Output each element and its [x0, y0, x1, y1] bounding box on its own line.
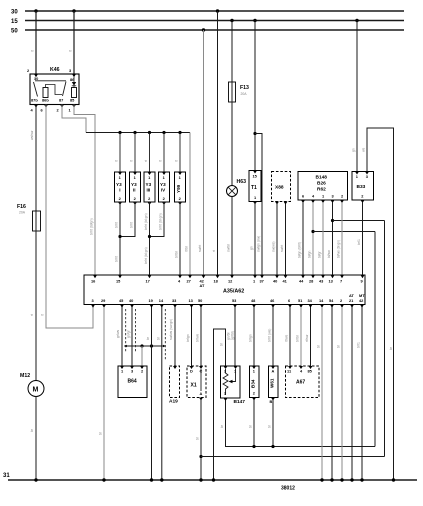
node: junction pin14b wire / bus31 — [320, 478, 323, 481]
motor M12 — [20, 373, 44, 397]
K46 switch contact 87 — [63, 82, 67, 97]
svg-text:30: 30 — [11, 10, 18, 16]
wire X1 pin A to bus31 — [200, 400, 202, 480]
svg-text:rt: rt — [130, 160, 134, 162]
ECU bottom pin 2 — [340, 298, 344, 308]
potentiometer B547 — [221, 366, 241, 401]
ECU bottom pin 33 — [172, 298, 177, 308]
wire ECU pin51 to A67 pin4 — [300, 307, 302, 366]
node: junction pin19 wire / bus31 — [150, 478, 153, 481]
ECU bottom pin 34 — [308, 298, 313, 308]
ECU bottom pin 3 — [91, 298, 95, 308]
node: feed rail junction Y99 — [178, 131, 181, 134]
ECU bottom pin 53 — [232, 298, 237, 308]
svg-text:sw/ws (sw gn): sw/ws (sw gn) — [169, 319, 173, 340]
ECU top pin 13 — [329, 275, 335, 284]
svg-text:20A: 20A — [241, 92, 248, 96]
svg-text:T1: T1 — [251, 185, 257, 191]
svg-text:(gr/bl): (gr/bl) — [231, 331, 235, 340]
node: feed rail junction Y3-IV — [162, 131, 165, 134]
wire ECU pin14b to bus31 — [321, 307, 323, 480]
ECU top pin 27 — [187, 275, 193, 284]
svg-text:ws: ws — [362, 148, 366, 152]
wire F13 to lamp H63 — [231, 102, 233, 186]
ECU top pin 41 — [283, 275, 288, 284]
pressure sensor B64 — [118, 366, 147, 398]
svg-text:sw/rt: sw/rt — [280, 245, 284, 252]
svg-text:F16: F16 — [17, 204, 26, 210]
wire B34 pin2 to ground rail — [253, 400, 255, 447]
lamp H63 — [227, 179, 247, 197]
svg-text:rt: rt — [212, 250, 216, 252]
ECU bottom pin MT 42 — [359, 293, 365, 308]
svg-text:86b: 86b — [42, 98, 49, 103]
svg-text:AT: AT — [200, 283, 206, 288]
wire B148 pin1 to ECU pin43 — [322, 203, 324, 276]
solenoid valve Y3-II — [130, 172, 141, 205]
node: junction AT21 wire / bus31 — [350, 478, 353, 481]
ECU top pin 40 — [273, 275, 279, 284]
wire B148 pin4 to ECU pin28 — [312, 203, 314, 276]
ECU bottom pin 29 — [101, 298, 106, 308]
wire B148 pin3 branch right — [333, 220, 385, 222]
svg-text:bl/gr: bl/gr — [318, 251, 322, 258]
svg-text:rt/ws: rt/ws — [285, 335, 289, 342]
svg-text:br/rt: br/rt — [115, 222, 119, 228]
svg-text:I: I — [119, 188, 120, 193]
svg-text:R62: R62 — [317, 187, 326, 193]
node: feed rail junction Y3-II — [133, 131, 136, 134]
wire Y3-IV joining Y3-III — [150, 202, 165, 237]
wire Y3-II joining Y3-I — [120, 202, 135, 237]
ECU top pin 42 AT — [200, 275, 206, 288]
ECU top pin 9 — [361, 275, 365, 284]
svg-text:87b: 87b — [31, 98, 38, 103]
node: junction pin54 wire / bus31 — [330, 478, 333, 481]
wire ECU pin50 to X1 pin C — [200, 307, 202, 366]
svg-text:40: 40 — [129, 298, 133, 303]
ECU top pin 4 — [178, 275, 182, 284]
svg-text:bl/ws (bl gn): bl/ws (bl gn) — [337, 240, 341, 258]
wire B148 pin3 to ECU pin13 — [332, 203, 334, 276]
svg-text:rt: rt — [175, 160, 179, 162]
svg-text:15: 15 — [11, 19, 18, 25]
node: junction Y3-III/Y3-IV wires — [148, 235, 151, 238]
svg-text:A35/A62: A35/A62 — [223, 289, 244, 295]
wire feed to Y3-III — [149, 133, 151, 173]
ECU bottom pin 50 — [198, 298, 203, 308]
wire ECU pin34 to A67 pin85 — [310, 307, 312, 366]
shield line of pin14 wire — [164, 309, 166, 360]
bus 30 — [11, 10, 404, 16]
ECU top pin 12 — [228, 275, 234, 284]
node: junction T1 wire / ECU pin37 branch — [253, 132, 256, 135]
svg-text:bl/gn (bl/rt): bl/gn (bl/rt) — [298, 242, 302, 258]
wire bus15 to T1 — [254, 21, 256, 171]
wire ECU pin2 to bus31 — [341, 307, 343, 480]
svg-text:B: B — [270, 399, 273, 404]
svg-text:br/rt: br/rt — [130, 222, 134, 228]
svg-text:50: 50 — [198, 298, 202, 303]
wire ECU pin54 to bus31 — [331, 307, 333, 480]
node: junction bus15/B33 pin1 wire — [355, 19, 358, 22]
svg-text:M: M — [33, 387, 39, 394]
svg-text:br/bl: br/bl — [296, 335, 300, 342]
svg-text:B26: B26 — [317, 181, 326, 187]
svg-text:X88: X88 — [275, 185, 284, 191]
wire B64 pin2 to drain — [141, 346, 143, 366]
ECU bottom pin 6 — [288, 298, 292, 308]
svg-text:X1: X1 — [191, 383, 197, 389]
wire ECU pin46 to W61 pin A — [272, 307, 274, 366]
wire K46 pin1 to ECU pin16 — [74, 105, 95, 276]
wire ECU pin33 to A19 — [174, 307, 176, 366]
svg-text:rt: rt — [41, 314, 45, 316]
svg-text:sw/rt: sw/rt — [198, 245, 202, 252]
wire bus15 to B33 pin1 — [356, 21, 358, 172]
svg-text:B34: B34 — [250, 379, 255, 388]
svg-text:Y99: Y99 — [176, 184, 181, 193]
node: junction pin2 wire / bus31 — [340, 478, 343, 481]
wire bus30 to K46 pin 3 — [73, 11, 75, 74]
wire F16 to motor M12 — [35, 231, 37, 381]
svg-text:B33: B33 — [357, 184, 366, 190]
svg-text:A: A — [272, 369, 275, 374]
bus 15 — [11, 19, 404, 25]
wire T1 to ECU pin1 — [254, 202, 256, 276]
wire B547 pin2 to ground rail — [226, 401, 376, 447]
svg-text:Y3: Y3 — [116, 182, 122, 187]
wire ECU pin45 to B64 pin1 (shielded) — [121, 307, 123, 366]
K46 coil — [43, 88, 48, 98]
wire right riser to B148 pin4 branch — [374, 232, 376, 447]
svg-text:A: A — [200, 391, 203, 396]
node: feed rail junction Y3-I — [118, 131, 121, 134]
fuse F16 — [17, 204, 41, 231]
wire bus15 to fuse F13 — [231, 21, 233, 83]
ignition coil T1 — [249, 171, 261, 205]
node: junction B148 pin3 wire / ground branch — [331, 219, 334, 222]
ECU bottom pin 19 — [149, 298, 154, 308]
svg-text:D: D — [190, 369, 193, 374]
ECU bottom pin 14 — [159, 298, 164, 308]
K46 internal top rail — [35, 80, 66, 82]
svg-text:31: 31 — [3, 473, 10, 479]
svg-text:br/rt (ws): br/rt (ws) — [268, 329, 272, 342]
wire feed to Y3-I — [119, 133, 121, 173]
svg-text:br/rt (bl/gn): br/rt (bl/gn) — [90, 218, 94, 235]
svg-text:rt/sw: rt/sw — [305, 334, 309, 342]
ECU top pin 18 — [214, 275, 220, 284]
ECU top pin 28 — [309, 275, 315, 284]
wire ECU pin14 to bus31 — [161, 307, 163, 480]
ECU bottom pin 51 — [298, 298, 303, 308]
svg-text:sw/bl: sw/bl — [227, 244, 231, 252]
svg-text:br/rt (bl gn): br/rt (bl gn) — [159, 213, 163, 230]
svg-text:Y3: Y3 — [131, 182, 137, 187]
svg-text:A19: A19 — [169, 399, 178, 405]
wire B33 pin2 to ECU pin9 — [362, 203, 364, 276]
ECU top pin 7 — [340, 275, 344, 284]
ECU top pin 15 — [116, 275, 122, 284]
node: junction B547 ground jog / bus31 — [212, 478, 215, 481]
node: junction bus30/K46 pin2 wire — [34, 9, 37, 12]
solenoid valve Y3-IV — [159, 172, 170, 205]
wire B547 pin3 to bus31 (jog) — [214, 329, 226, 480]
node: junction pin14 wire / bus31 — [160, 478, 163, 481]
svg-text:27: 27 — [187, 279, 191, 284]
ECU bottom pin 48 — [251, 298, 256, 308]
node: junction B34 wire / ground rail — [252, 445, 255, 448]
ECU bottom pin AT 21 — [349, 293, 355, 308]
svg-text:F13: F13 — [240, 85, 249, 91]
module A19 — [169, 366, 180, 405]
ECU top pin 17 — [146, 275, 152, 284]
wire K46 pin2 to solenoid feed rail — [62, 105, 86, 133]
wire feed to Y3-IV — [163, 133, 165, 173]
svg-text:K46: K46 — [50, 67, 60, 73]
svg-text:B148: B148 — [316, 175, 328, 181]
svg-text:87: 87 — [59, 98, 63, 103]
node: junction B33 ground drop / bus31 — [392, 478, 395, 481]
svg-text:rt: rt — [69, 50, 73, 52]
node: junction bus30/ECU pin18 wire — [216, 9, 219, 12]
svg-text:gn: gn — [352, 148, 356, 152]
shield line of pin45 wire — [125, 309, 127, 352]
svg-text:30: 30 — [34, 76, 38, 81]
wire bus30 to ECU pin18 — [217, 11, 219, 275]
wire right riser to B148 pin3 branch — [384, 221, 386, 457]
svg-text:rt/bl: rt/bl — [185, 246, 189, 252]
bus 50 — [11, 29, 404, 35]
ECU top pin 16 — [91, 275, 97, 284]
switch B33 — [352, 172, 374, 204]
wire ECU pin48 to B34 — [253, 307, 255, 366]
svg-text:7: 7 — [340, 279, 342, 284]
ECU bottom pin 54 — [329, 298, 334, 308]
svg-text:br/rt (bl gn): br/rt (bl gn) — [144, 247, 148, 264]
ECU bottom pin 40 — [129, 298, 134, 308]
svg-text:III: III — [147, 188, 151, 193]
svg-text:rt: rt — [115, 160, 119, 162]
svg-text:B64: B64 — [128, 379, 137, 385]
wire ECU pin13 to X1 pin D — [191, 307, 193, 366]
wire X88 to ECU pin41 — [285, 204, 287, 275]
K46 resistor — [72, 88, 77, 98]
node: junction bus50/ECU pin42 wire — [202, 28, 205, 31]
wire B33 pin3 up and over to ground drop — [367, 128, 394, 480]
svg-text:20A: 20A — [19, 211, 26, 215]
svg-text:gn/gr: gn/gr — [127, 329, 131, 338]
node: junction X1 pinA wire / B148 pin3 ground branch — [199, 455, 202, 458]
svg-text:br/rt (bl gn): br/rt (bl gn) — [144, 213, 148, 230]
svg-text:II: II — [133, 188, 136, 193]
node: junction pin29 wire / bus31 — [102, 478, 105, 481]
ECU top pin 44 — [299, 275, 305, 284]
svg-text:bl/gn: bl/gn — [308, 251, 312, 258]
wire ground branch from X1 pinA to right riser — [201, 456, 385, 458]
K46 bottom pin labels — [31, 98, 77, 113]
ground bus 31 — [3, 473, 417, 480]
wire H63 to ECU pin12 — [231, 197, 233, 276]
wire B148 pin6 to ECU pin44 — [302, 203, 304, 276]
node: junction drain / ECU pin19 wire — [150, 344, 153, 347]
svg-text:A67: A67 — [296, 380, 305, 386]
svg-text:rt: rt — [144, 160, 148, 162]
svg-text:gn: gn — [250, 246, 254, 250]
wire B148 pin2 to ECU pin7 — [341, 203, 343, 276]
wire feed to Y3-II — [134, 133, 136, 173]
node: junction MT42 wire / bus31 — [360, 478, 363, 481]
node: junction drain / B64 pin2 wire — [140, 344, 143, 347]
solenoid valve Y3-I — [115, 172, 126, 205]
svg-text:rt: rt — [159, 160, 163, 162]
node: junction bus15/F13 wire — [230, 19, 233, 22]
wire ECU pin MT42 to bus31 — [361, 307, 363, 480]
wire Y3-I to ECU pin15 — [119, 202, 121, 275]
node: junction bus30/K46 pin3 wire — [72, 9, 75, 12]
wire bus50 to ECU pin42 — [203, 30, 205, 275]
wire ECU pin53 to B547 — [234, 307, 236, 366]
svg-text:H63: H63 — [237, 179, 247, 185]
node: junction Y3-I/Y3-II wires — [118, 235, 121, 238]
svg-text:br/bl: br/bl — [175, 251, 179, 258]
node: junction W61 wire / ground rail — [271, 445, 274, 448]
svg-text:38012: 38012 — [281, 486, 295, 492]
solenoid valve Y99 — [175, 172, 186, 205]
wire ECU pin6 to A67 pin11 — [289, 307, 291, 366]
module A67 — [286, 366, 320, 398]
svg-text:Y3: Y3 — [160, 182, 166, 187]
svg-text:gr/ws: gr/ws — [116, 330, 120, 338]
svg-text:br/1: br/1 — [357, 239, 361, 245]
wire branch to ECU pin37 — [255, 134, 262, 276]
svg-text:bl/sw: bl/sw — [327, 250, 331, 258]
shield drain line — [124, 345, 165, 347]
node: feed rail junction Y3-III — [148, 131, 151, 134]
wire feed to Y99 — [179, 133, 181, 173]
node: junction M12 wire / bus31 — [34, 478, 37, 481]
ECU top pin 1 — [253, 275, 257, 284]
svg-text:br/gn: br/gn — [249, 334, 253, 342]
svg-text:sw/gn (sw): sw/gn (sw) — [257, 236, 261, 252]
ECU top pin 43 — [319, 275, 325, 284]
ECU bottom pin 45 — [119, 298, 124, 308]
control unit A35/A62 — [84, 275, 365, 305]
sensor unit B148/B26/R62 — [298, 172, 348, 204]
wire B148 pin4 branch right — [313, 231, 375, 233]
node: junction X1 pinA wire / bus31 — [199, 478, 202, 481]
svg-text:br/rt: br/rt — [115, 256, 119, 262]
ECU bottom pin 14b — [319, 298, 324, 308]
svg-text:rt: rt — [31, 50, 35, 52]
svg-text:17: 17 — [146, 279, 150, 284]
svg-text:W61: W61 — [269, 378, 274, 388]
K46 coil linkage — [46, 85, 63, 95]
svg-text:50: 50 — [11, 29, 18, 35]
svg-text:br/ws: br/ws — [196, 334, 200, 342]
wire ECU pin29 to bus31 — [103, 307, 105, 480]
wire solenoid feed rail — [86, 132, 190, 134]
svg-text:B147: B147 — [234, 399, 246, 405]
node: junction B148 pin4 wire / ground branch — [311, 230, 314, 233]
fuse F13 — [229, 82, 250, 102]
svg-text:37: 37 — [260, 279, 264, 284]
svg-text:br/gn: br/gn — [186, 334, 190, 342]
shield line of pin40 wire — [135, 309, 137, 352]
K46 switch contact 87b — [34, 82, 38, 97]
relay K46 — [27, 67, 79, 105]
wire ECU pin40 to B64 pin3 (shielded) — [131, 307, 133, 366]
svg-text:ws/sw: ws/sw — [30, 130, 34, 140]
solenoid valve Y3-III — [144, 172, 155, 205]
wire ECU pin19 to bus31 — [151, 307, 153, 480]
wire K46 pin4 to fuse F16 — [35, 105, 37, 212]
svg-text:40: 40 — [273, 279, 277, 284]
connector W61 — [269, 366, 279, 404]
sensor B34 — [250, 366, 260, 401]
wire K46 pin6 to ECU pin3 — [46, 105, 93, 329]
ECU bottom pin 13 — [189, 298, 194, 308]
wire M12 to bus 31 — [35, 397, 37, 481]
connector X1 — [187, 366, 206, 401]
connector X88 — [272, 172, 291, 205]
wire X88 to ECU pin40 — [276, 204, 278, 275]
svg-text:M12: M12 — [20, 373, 30, 379]
svg-text:rt: rt — [30, 314, 34, 316]
wire Y3-III to ECU pin17 — [149, 202, 151, 275]
node: junction bus15/T1 wire — [253, 19, 256, 22]
ECU top pin 37 — [260, 275, 265, 284]
svg-text:Y3: Y3 — [146, 182, 152, 187]
wire feed rail corner down to ECU pin27 — [189, 133, 191, 276]
wire Y99 to ECU pin4 — [179, 202, 181, 275]
wire W61 pin B to ground rail — [272, 400, 274, 447]
ECU bottom pin 46 — [270, 298, 275, 308]
wire ECU pin AT21 to bus31 — [351, 307, 353, 480]
wire bus30 to K46 pin 2 — [35, 11, 37, 74]
svg-text:br/1: br/1 — [357, 342, 361, 348]
K46 diode — [72, 82, 76, 86]
svg-text:sw(ws): sw(ws) — [272, 241, 276, 252]
